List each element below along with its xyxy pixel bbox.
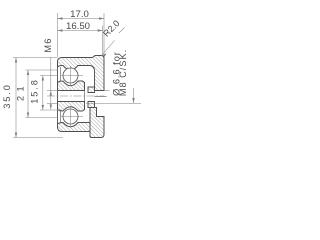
- svg-text:17.0: 17.0: [70, 9, 89, 20]
- svg-text:21: 21: [16, 82, 26, 101]
- svg-text:35.0: 35.0: [2, 83, 12, 108]
- svg-text:16.50: 16.50: [66, 21, 90, 32]
- svg-text:M8 C/SK.: M8 C/SK.: [118, 49, 128, 96]
- svg-text:M6: M6: [43, 37, 53, 52]
- svg-text:15.8: 15.8: [30, 78, 40, 103]
